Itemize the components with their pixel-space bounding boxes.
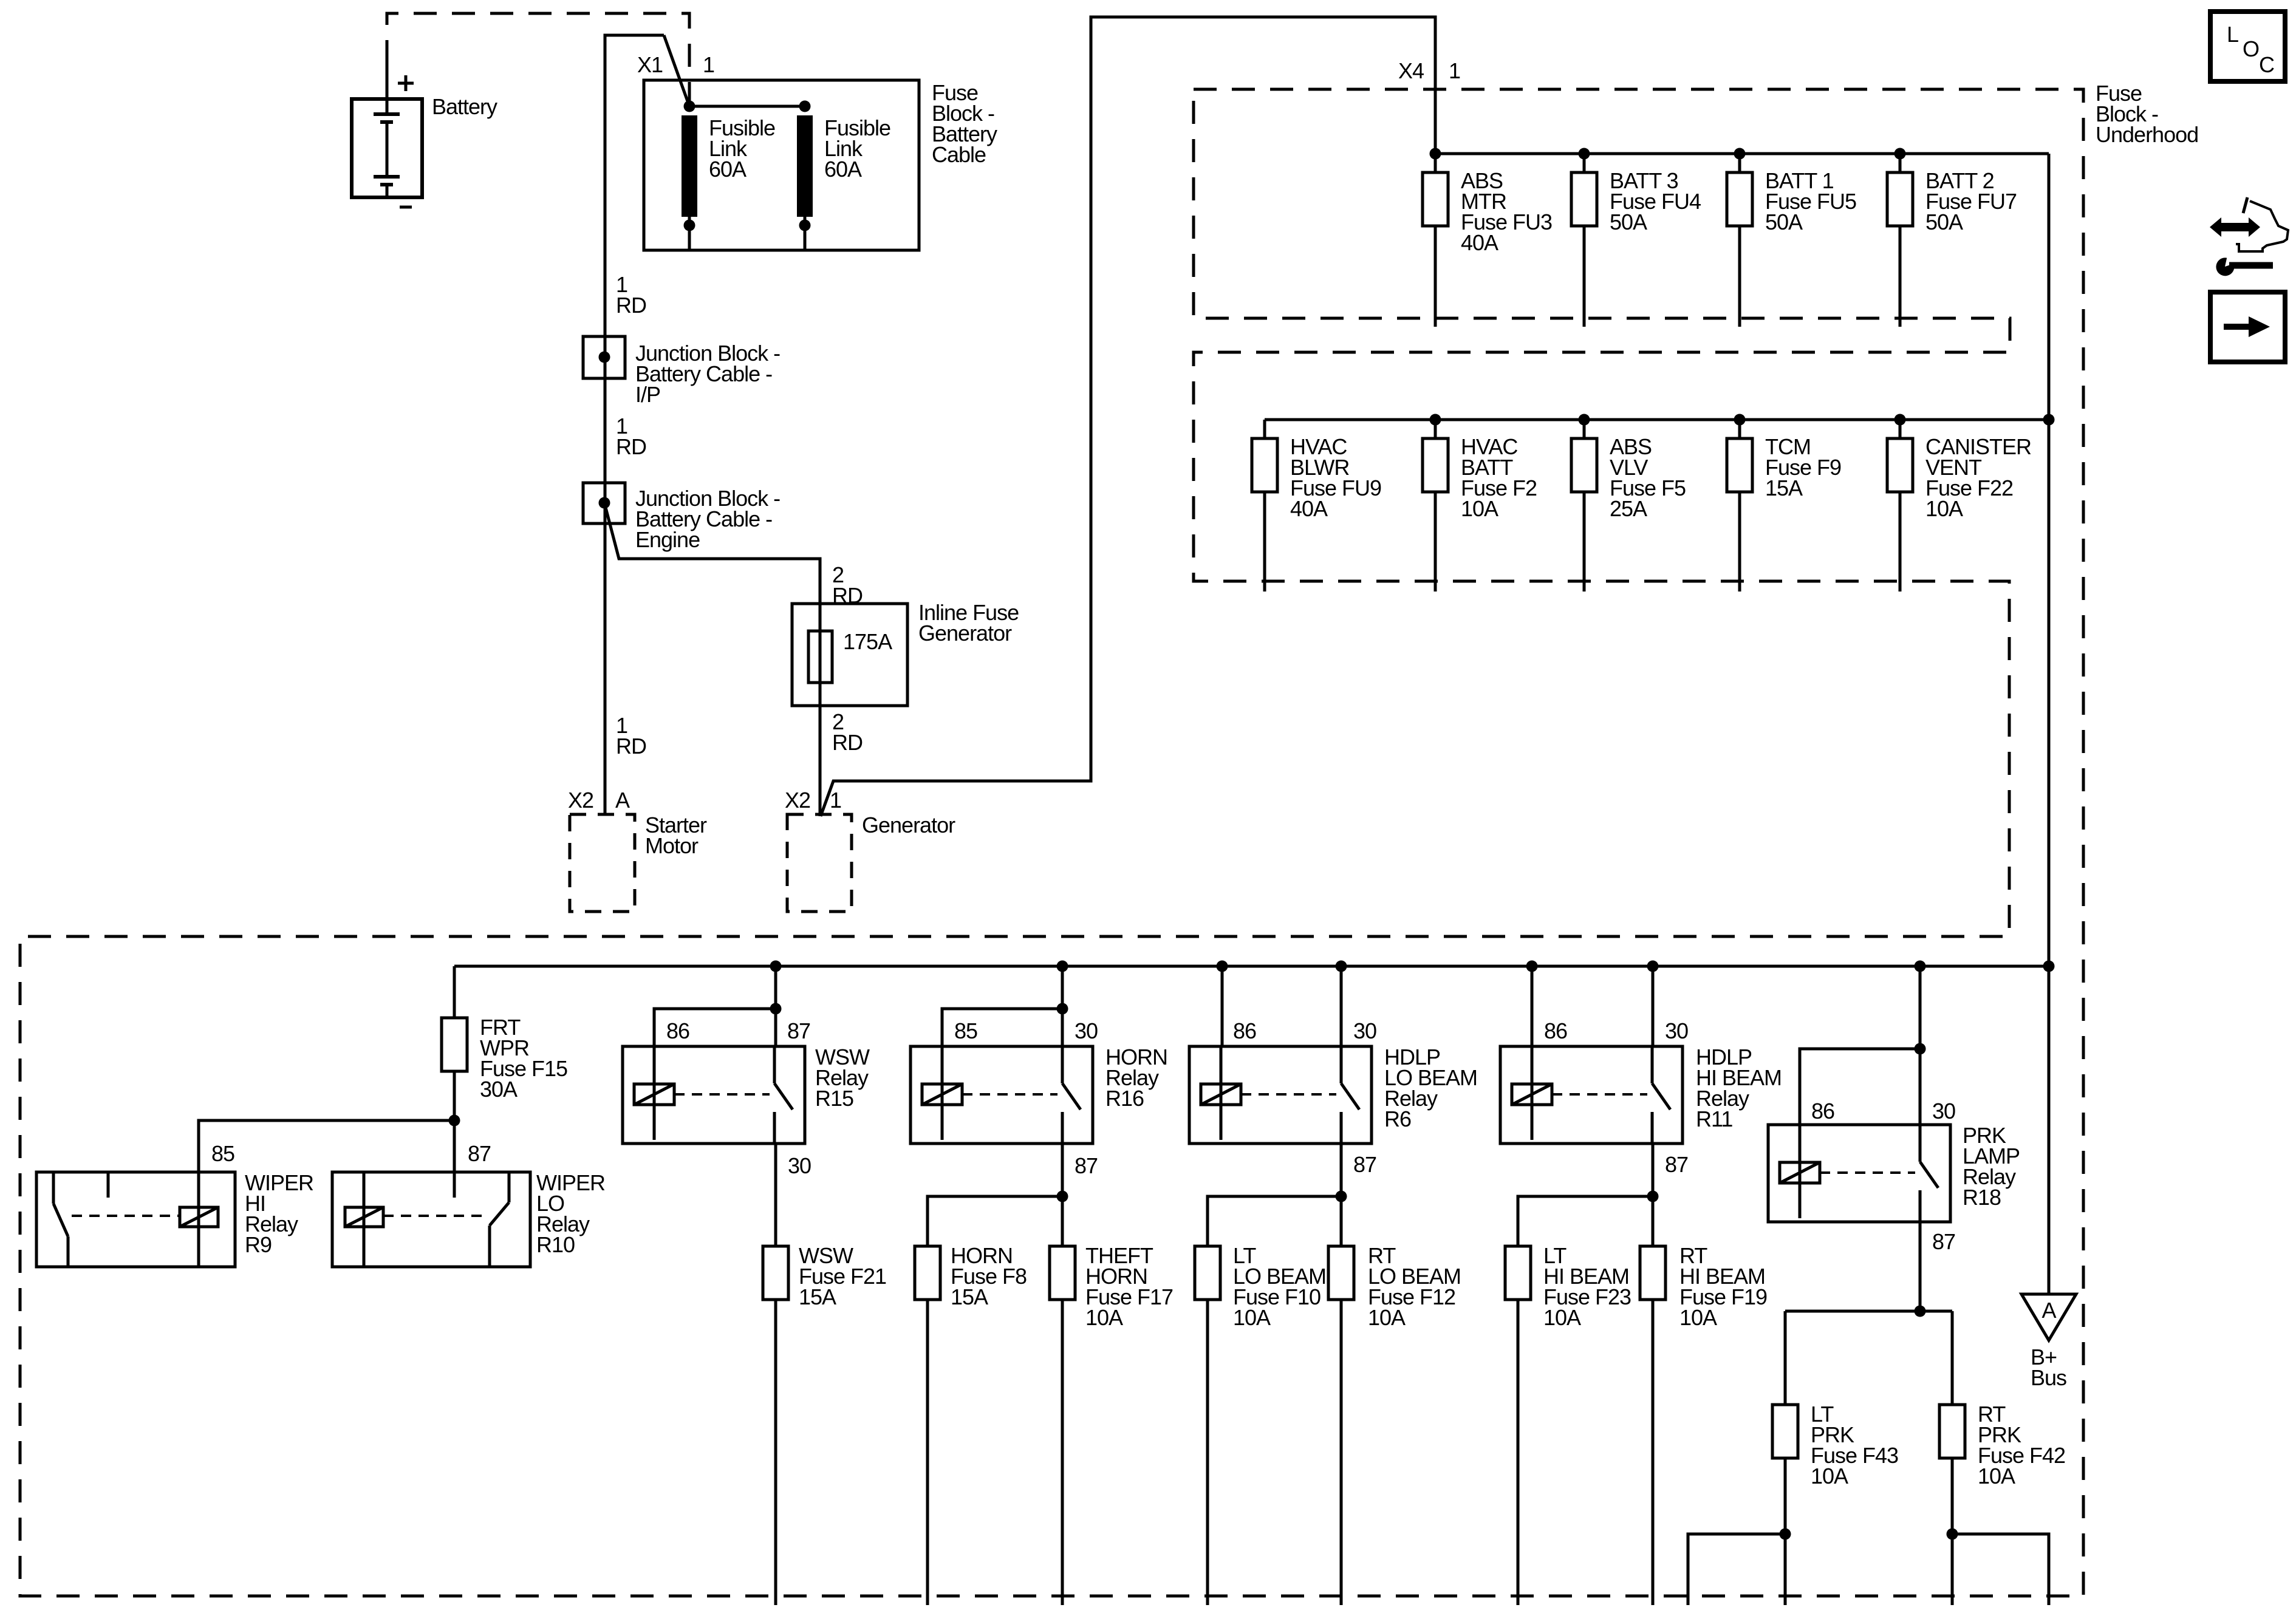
svg-text:87: 87	[1075, 1153, 1098, 1178]
svg-text:85: 85	[211, 1141, 234, 1166]
wire - B+ bus trunk down into relay box	[2048, 420, 2051, 966]
label Fusible Link 60A (right)	[824, 115, 890, 182]
label 2 RD (below inline fuse)	[832, 709, 863, 755]
label RT HI BEAM Fuse F19 10A	[1679, 1243, 1767, 1330]
label PRK LAMP Relay R18	[1963, 1123, 2020, 1210]
wire - link tops	[689, 105, 805, 108]
wire - R16 pin87 down with jog to fuses F8/F17	[928, 1144, 1068, 1246]
label 1 RD (below junction block I/P)	[616, 414, 646, 459]
label B+ Bus	[2031, 1345, 2066, 1390]
svg-text:A: A	[2041, 1298, 2056, 1323]
connector X2 pin 1 labels (generator)	[785, 788, 841, 813]
wire - battery cable trunk (1 RD) from X1 down to starter	[605, 35, 664, 814]
label LT PRK Fuse F43 10A	[1811, 1402, 1898, 1488]
label 30 (R6)	[1353, 1018, 1376, 1043]
junction block - battery cable - I/P	[583, 336, 625, 378]
wire - R15 pin30 down to fuse F21	[774, 1144, 777, 1246]
label 87 (R6)	[1353, 1152, 1376, 1177]
label Inline Fuse Generator	[918, 600, 1019, 646]
label 30 (R16)	[1075, 1018, 1098, 1043]
label 30 (R18)	[1932, 1099, 1955, 1123]
fuse F5 ABS VLV 25A	[1571, 414, 1597, 592]
node bus dot x=2012	[1217, 961, 1228, 972]
svg-text:X4: X4	[1398, 58, 1424, 83]
connector X4 pin 1 labels	[1398, 58, 1460, 83]
svg-text:Battery: Battery	[432, 94, 497, 119]
svg-text:30: 30	[1665, 1018, 1688, 1043]
fuse FU7 BATT 2 50A	[1887, 148, 1913, 327]
label HDLP HI BEAM Relay R11	[1696, 1045, 1782, 1131]
label Junction Block - Battery Cable - I/P	[635, 341, 780, 407]
svg-text:X2: X2	[568, 788, 593, 813]
svg-text:L: L	[2227, 22, 2238, 47]
label 87 (wiper lo)	[468, 1141, 491, 1166]
label 86 (R18)	[1811, 1099, 1834, 1123]
node wiper feed dot	[449, 1115, 460, 1127]
label ABS fuse	[1461, 168, 1552, 255]
label BATT 2 fuse	[1925, 168, 2017, 234]
wire - wiper relay feed jog	[199, 1120, 454, 1172]
fuse FU5 BATT 1 50A	[1727, 148, 1752, 327]
label RT PRK Fuse F42 10A	[1978, 1402, 2065, 1488]
label TCM fuse	[1765, 434, 1841, 500]
node X4 dot	[1430, 148, 1441, 160]
inline fuse generator 175A	[792, 604, 907, 706]
wire - 2 RD from engine junction block to inline fuse	[604, 503, 820, 604]
node - X1 junction dot	[684, 101, 695, 112]
svg-text:86: 86	[666, 1018, 689, 1043]
label HORN Relay R16	[1105, 1045, 1167, 1111]
label 2 RD (above inline fuse)	[832, 562, 863, 608]
label LT HI BEAM Fuse F23 10A	[1543, 1243, 1631, 1330]
label 86 (R11)	[1544, 1018, 1567, 1043]
node bus dot x=3161	[1915, 961, 1926, 972]
label 85 (wiper hi)	[211, 1141, 234, 1166]
fuse F2 HVAC BATT 10A	[1423, 414, 1448, 592]
svg-text:1: 1	[703, 52, 714, 77]
label 85 (R16)	[954, 1018, 977, 1043]
svg-text:StarterMotor: StarterMotor	[645, 813, 707, 858]
wire - R18 feed from bus	[1800, 966, 1926, 1125]
wire - R11 feeds from bus	[1532, 966, 1653, 1046]
node bus dot x=1749	[1057, 961, 1068, 972]
fuse FU3 ABS MTR 40A	[1423, 154, 1448, 327]
label 1 RD (above starter connector)	[616, 713, 646, 759]
wire - R6 feeds from bus	[1222, 966, 1341, 1046]
icon - vehicle service pictograph with double arrow	[2210, 197, 2288, 251]
svg-text:Inline FuseGenerator: Inline FuseGenerator	[918, 600, 1019, 646]
wire - F42 return stub	[1947, 1529, 2049, 1606]
fusible link 1 60A	[682, 115, 697, 250]
wire - diagonal into connector X1 pin 1	[664, 35, 689, 106]
svg-text:87: 87	[1353, 1152, 1376, 1177]
label LT LO BEAM Fuse F10 10A	[1233, 1243, 1326, 1330]
svg-text:30: 30	[1932, 1099, 1955, 1123]
wire - R16 feed from bus	[942, 966, 1068, 1046]
svg-text:175A: 175A	[843, 629, 892, 654]
svg-text:86: 86	[1233, 1018, 1256, 1043]
node row2 bus right dot	[2043, 414, 2055, 426]
label 87 (R18)	[1932, 1229, 1955, 1254]
label 175A	[843, 629, 892, 654]
label 86 (R15)	[666, 1018, 689, 1043]
relay R11 HDLP HI BEAM	[1500, 1046, 1683, 1144]
label 87 (R15)	[787, 1018, 810, 1043]
wire - riser from row1 bus to row2 bus (right side)	[2048, 154, 2051, 420]
label Fuse Block - Underhood	[2096, 81, 2198, 147]
svg-text:O: O	[2243, 36, 2259, 61]
svg-text:87: 87	[1932, 1229, 1955, 1254]
fuse F17 THEFT HORN 10A	[1050, 1246, 1075, 1605]
wire - F43 return stub	[1688, 1529, 1791, 1606]
wire - B+ bus down to terminal A	[2048, 966, 2051, 1294]
svg-text:X2: X2	[785, 788, 810, 813]
label HVAC fuse	[1461, 434, 1537, 521]
wire - relay box main feed bus	[454, 965, 2049, 968]
label BATT 3 fuse	[1610, 168, 1701, 234]
node bus dot x=2522	[1526, 961, 1538, 972]
wire - R11 pin87 down with jog to fuses F23/F19	[1518, 1144, 1659, 1246]
fuse F10 LT LO BEAM 10A	[1195, 1246, 1220, 1605]
starter motor connector box	[570, 814, 635, 912]
node bus dot x=3373	[2043, 961, 2055, 972]
relay R9 WIPER HI	[36, 1172, 235, 1267]
icon - continue arrow box	[2210, 292, 2285, 362]
fuse block - battery cable box	[644, 80, 919, 250]
label HDLP LO BEAM Relay R6	[1384, 1045, 1477, 1131]
junction block - battery cable - Engine	[583, 483, 625, 523]
label 87 (R16)	[1075, 1153, 1098, 1178]
relay R10 WIPER LO	[332, 1172, 530, 1267]
fuse FU4 BATT 3 50A	[1571, 148, 1597, 327]
svg-text:C: C	[2259, 52, 2274, 77]
label 86 (R6)	[1233, 1018, 1256, 1043]
svg-text:A: A	[615, 788, 630, 813]
fuse F15 FRT WPR 30A	[442, 966, 467, 1120]
label HORN Fuse F8 15A	[951, 1243, 1027, 1309]
node bus dot x=2208	[1336, 961, 1347, 972]
fuse F21 WSW 15A	[763, 1246, 788, 1605]
svg-text:1: 1	[830, 788, 841, 813]
svg-text:X1: X1	[637, 52, 663, 77]
label HVAC BLWR fuse	[1290, 434, 1381, 521]
label Fusible Link 60A (left)	[709, 115, 775, 182]
label WSW Relay R15	[815, 1045, 870, 1111]
label CANISTER fuse	[1925, 434, 2031, 521]
fusible link 2 60A	[797, 101, 813, 251]
svg-text:85: 85	[954, 1018, 977, 1043]
terminal A - B+ Bus off-page triangle	[2021, 1294, 2076, 1340]
connector X1 pin 1 labels	[637, 52, 714, 77]
label 1 RD (above junction block I/P)	[616, 272, 646, 318]
battery B1	[352, 61, 422, 197]
fuse F19 RT HI BEAM 10A	[1640, 1246, 1666, 1605]
label Starter Motor	[645, 813, 707, 858]
svg-text:30: 30	[1353, 1018, 1376, 1043]
fuse F43 LT PRK 10A	[1772, 1311, 1798, 1605]
label FRT WPR Fuse F15 30A	[480, 1015, 567, 1102]
fuse F23 LT HI BEAM 10A	[1505, 1246, 1531, 1605]
node bus dot x=2721	[1647, 961, 1659, 972]
label ABS fuse	[1610, 434, 1686, 521]
node bus dot x=1277	[770, 961, 782, 972]
plus terminal of battery	[398, 75, 414, 91]
svg-text:1: 1	[1449, 58, 1460, 83]
svg-text:86: 86	[1811, 1099, 1834, 1123]
minus terminal of battery	[400, 206, 412, 209]
wire - generator output to X4 (top route)	[821, 17, 1435, 816]
wire - R15 feed from bus	[654, 966, 782, 1046]
fuse F12 RT LO BEAM 10A	[1328, 1246, 1354, 1605]
label 30 (R15)	[788, 1153, 811, 1178]
LOC reference box	[2210, 12, 2285, 81]
label Fuse Block - Battery Cable	[932, 80, 997, 167]
label Battery	[432, 94, 497, 119]
svg-text:87: 87	[1665, 1152, 1688, 1177]
wire - 2 RD inline fuse down to generator connector	[819, 706, 822, 816]
label RT LO BEAM Fuse F12 10A	[1368, 1243, 1461, 1330]
connector X2 pin A labels (starter)	[568, 788, 630, 813]
label BATT 1 fuse	[1765, 168, 1856, 234]
generator connector box	[787, 814, 852, 912]
fuse F8 HORN 15A	[915, 1246, 940, 1605]
relay R15 WSW	[623, 1046, 805, 1144]
wire - R6 pin87 down with jog to fuses F10/F12	[1208, 1144, 1347, 1246]
label THEFT HORN Fuse F17 10A	[1085, 1243, 1173, 1330]
wire - dashed battery positive feed to X1	[387, 13, 689, 101]
label WIPER HI Relay R9	[245, 1170, 313, 1257]
svg-text:30: 30	[1075, 1018, 1098, 1043]
fuse F9 TCM 15A	[1727, 414, 1752, 592]
svg-text:Generator: Generator	[862, 813, 955, 837]
icon - wrench	[2216, 257, 2273, 276]
svg-text:86: 86	[1544, 1018, 1567, 1043]
fuse F42 RT PRK 10A	[1939, 1311, 1965, 1605]
label Generator	[862, 813, 955, 837]
relay R16 HORN	[911, 1046, 1093, 1144]
relay R6 HDLP LO BEAM	[1189, 1046, 1372, 1144]
label Junction Block - Battery Cable - Engine	[635, 486, 780, 552]
relay R18 PRK LAMP	[1768, 1125, 1950, 1222]
label WSW Fuse F21 15A	[799, 1243, 886, 1309]
svg-text:30: 30	[788, 1153, 811, 1178]
fuse F22 CANISTER VENT 10A	[1887, 414, 1913, 592]
label 87 (R11)	[1665, 1152, 1688, 1177]
svg-text:87: 87	[787, 1018, 810, 1043]
fuse FU9 HVAC BLWR 40A	[1252, 420, 1277, 592]
wire - underhood bus row 1	[1435, 152, 2049, 155]
svg-text:87: 87	[468, 1141, 491, 1166]
wire - R18 pin87 down to PRK fuse pair	[1785, 1222, 1952, 1317]
wire - underhood bus row 2	[1265, 418, 2049, 421]
label WIPER LO Relay R10	[536, 1170, 605, 1257]
label 30 (R11)	[1665, 1018, 1688, 1043]
